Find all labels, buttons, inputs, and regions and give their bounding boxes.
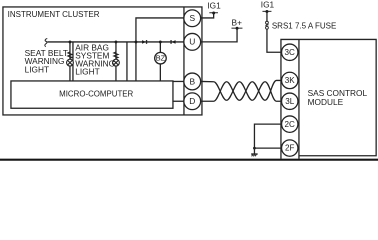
svg-text:MICRO-COMPUTER: MICRO-COMPUTER <box>59 89 133 98</box>
diode D2 <box>171 40 176 44</box>
wire micro-computer to B <box>172 80 184 82</box>
wire S branch vertical <box>136 18 184 81</box>
svg-text:LIGHT: LIGHT <box>75 67 99 77</box>
svg-text:IG1: IG1 <box>207 1 221 11</box>
node junction lamp2 <box>115 41 118 44</box>
page separator line <box>0 159 378 161</box>
node junction buzzer <box>159 41 162 44</box>
svg-text:3C: 3C <box>285 48 296 57</box>
wire lamp2 stem <box>115 42 117 81</box>
instrument cluster connector divider <box>183 7 185 115</box>
connector pin 2C <box>282 116 298 132</box>
svg-text:SRS1 7.5 A FUSE: SRS1 7.5 A FUSE <box>272 21 336 30</box>
twisted pair wire D to 3K <box>201 80 282 101</box>
svg-text:LIGHT: LIGHT <box>25 65 49 75</box>
air bag warning light label box left edge <box>72 42 74 81</box>
micro-computer box <box>11 81 173 108</box>
connector pin 3L <box>282 93 298 109</box>
wire main lamp bus <box>47 41 184 43</box>
label air bag system warning light <box>75 42 115 76</box>
label seat belt warning light <box>25 48 68 75</box>
svg-text:U: U <box>189 37 195 47</box>
svg-text:2F: 2F <box>285 144 295 153</box>
connector pin U <box>184 33 201 50</box>
connector pin B <box>184 73 201 90</box>
diode D1 <box>142 40 147 44</box>
wire BZ stem <box>159 42 161 81</box>
wire 2C ground branch <box>254 124 281 148</box>
svg-text:IG1: IG1 <box>261 0 275 9</box>
resistor seat belt lamp <box>68 52 72 58</box>
svg-text:B: B <box>189 76 195 86</box>
wire IG1 to fuse <box>266 12 268 22</box>
wire S to IG1 <box>201 13 214 18</box>
wire 2F ground branch <box>254 147 281 149</box>
lamp air bag system warning light <box>113 59 120 66</box>
terminal IG1 left <box>209 11 218 14</box>
svg-text:D: D <box>189 96 195 106</box>
svg-text:S: S <box>189 13 195 23</box>
svg-text:B+: B+ <box>232 18 243 28</box>
svg-text:MODULE: MODULE <box>308 97 344 107</box>
node junction lamp1 <box>69 41 72 44</box>
wire U to B+ <box>201 28 237 42</box>
label SAS control module <box>308 88 368 107</box>
wire fuse to 3C <box>267 29 282 52</box>
wire ground stem <box>253 148 255 154</box>
wire break squiggle <box>45 38 47 46</box>
terminal IG1 right <box>262 10 271 13</box>
node junction S branch <box>135 41 138 44</box>
buzzer BZ <box>155 52 167 64</box>
lamp seat belt warning light <box>67 59 74 66</box>
svg-text:3L: 3L <box>285 97 295 106</box>
fuse SRS1 7.5 A <box>266 21 269 29</box>
node ground junction <box>253 147 256 150</box>
twisted pair wire B to 3L <box>201 81 282 101</box>
instrument cluster box <box>3 7 202 115</box>
wire lamp1 stem <box>69 42 71 81</box>
resistor air bag lamp <box>114 52 118 58</box>
connector pin 3K <box>282 72 298 88</box>
connector pin D <box>184 93 201 110</box>
connector pin S <box>184 10 201 27</box>
svg-text:BZ: BZ <box>156 54 166 63</box>
svg-text:2C: 2C <box>285 120 296 129</box>
ground chassis symbol <box>251 154 258 156</box>
connector pin 3C <box>282 44 298 60</box>
svg-text:INSTRUMENT CLUSTER: INSTRUMENT CLUSTER <box>8 10 100 19</box>
air bag warning light label box right edge <box>126 42 128 81</box>
wire micro-computer to D <box>172 100 184 102</box>
connector pin 2F <box>282 140 298 156</box>
terminal B+ <box>231 27 242 30</box>
svg-text:3K: 3K <box>285 76 296 85</box>
SAS control module box <box>281 39 376 158</box>
